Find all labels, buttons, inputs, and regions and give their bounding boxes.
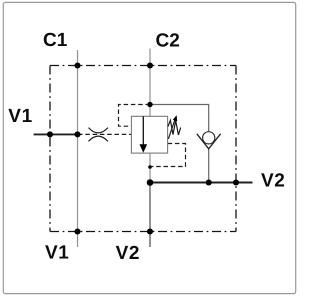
svg-text:V2: V2	[116, 243, 140, 264]
svg-text:C1: C1	[43, 30, 68, 51]
svg-text:V2: V2	[261, 170, 285, 191]
svg-text:V1: V1	[8, 106, 32, 127]
svg-text:C2: C2	[156, 31, 180, 52]
svg-text:V1: V1	[45, 243, 69, 264]
